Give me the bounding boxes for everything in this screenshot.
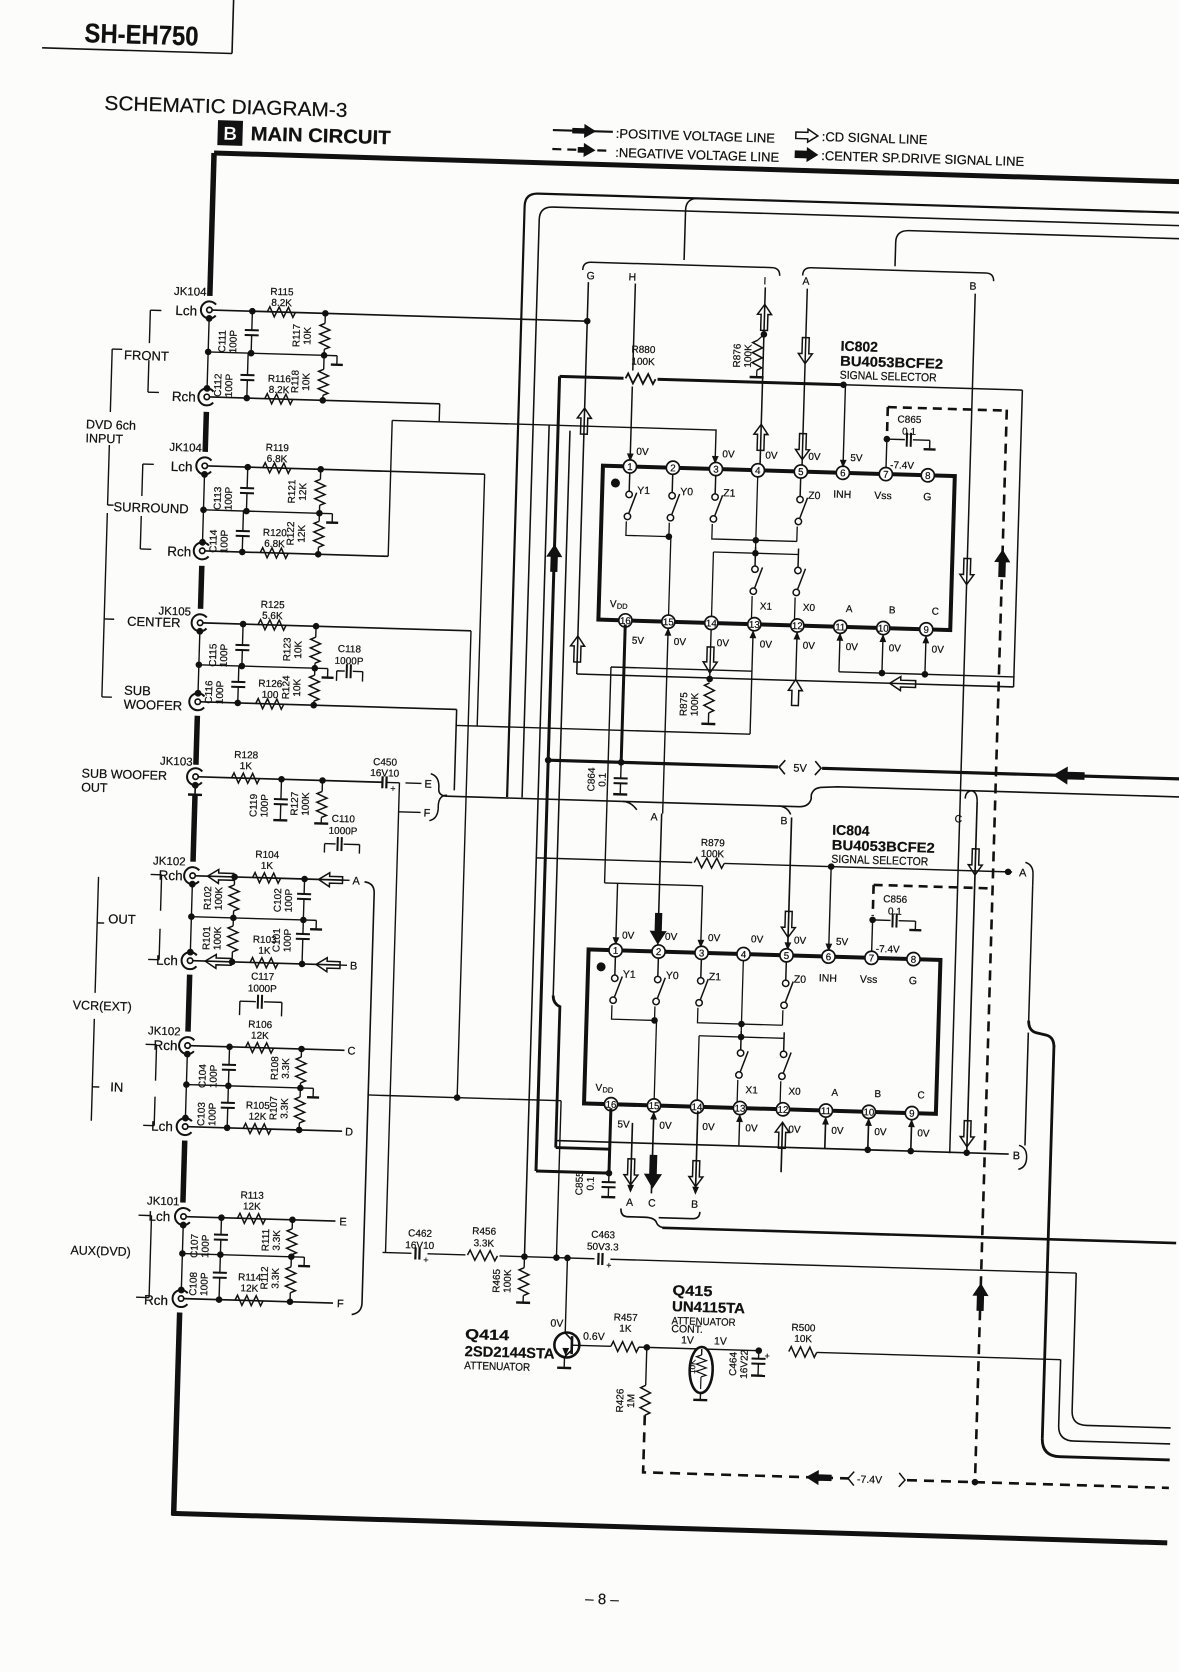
resistor R128 [231, 773, 259, 784]
svg-text:0V: 0V [674, 637, 687, 648]
svg-text:8: 8 [911, 955, 917, 966]
svg-text:5: 5 [798, 467, 804, 478]
wire C down [967, 802, 977, 1153]
resistor R104 [252, 872, 280, 883]
svg-text:10K: 10K [292, 678, 304, 696]
wire vcr out sleeve [190, 884, 192, 953]
svg-text:R104: R104 [255, 850, 280, 862]
wire subwoofer jog [454, 709, 456, 790]
wire 5V vertical feed [536, 376, 560, 1171]
svg-text:12K: 12K [298, 482, 310, 500]
legend center sp drive signal line [795, 148, 817, 162]
svg-text:Z1: Z1 [709, 971, 722, 983]
wire att line [383, 1252, 1077, 1273]
svg-text:R122: R122 [285, 521, 297, 546]
wire aux rail [182, 1254, 291, 1257]
svg-text:R112: R112 [259, 1266, 271, 1290]
svg-text:15: 15 [648, 1101, 660, 1112]
wire B line down [950, 294, 976, 1154]
wire center sleeve [198, 631, 200, 694]
svg-text:12K: 12K [243, 1201, 261, 1213]
svg-text:VCR(EXT): VCR(EXT) [73, 998, 132, 1014]
svg-text:-7.4V: -7.4V [876, 944, 901, 956]
svg-text:R116: R116 [268, 374, 292, 386]
svg-text:1V: 1V [714, 1335, 727, 1347]
wire pins 11 10 9 line [836, 633, 843, 641]
svg-text:C118: C118 [338, 644, 362, 656]
capacitor C864 [620, 762, 622, 778]
svg-text:5V: 5V [836, 937, 849, 948]
svg-text:C103: C103 [196, 1102, 208, 1127]
bundle curl A exit [1025, 862, 1034, 885]
IC804 switch wiring [612, 1005, 655, 1020]
jack JK105 sub woofer [189, 693, 205, 710]
svg-text:C101: C101 [271, 928, 283, 953]
svg-text:10: 10 [878, 624, 890, 635]
wire pin14 R875 [710, 629, 711, 679]
resistor R500 [789, 1347, 817, 1358]
svg-text:R125: R125 [261, 600, 286, 612]
svg-text:1000P: 1000P [248, 983, 278, 995]
svg-text:R106: R106 [248, 1019, 273, 1031]
svg-text:3: 3 [713, 465, 719, 476]
wire E stub [405, 782, 421, 784]
svg-text:13: 13 [734, 1103, 746, 1114]
svg-text:8.2K: 8.2K [271, 298, 292, 310]
svg-text:0V: 0V [931, 645, 944, 656]
jack JK101 Lch [175, 1208, 191, 1225]
svg-text:0.1: 0.1 [902, 427, 917, 438]
IC802 box [598, 466, 954, 630]
section marker B [217, 120, 243, 146]
capacitor C118 [335, 671, 337, 681]
wire aux lch [186, 1217, 335, 1221]
svg-text:5V: 5V [793, 762, 807, 774]
wire 5V rail [548, 760, 778, 767]
wire att corner right [1072, 1273, 1175, 1428]
svg-text:10K: 10K [301, 372, 313, 390]
svg-text:0V: 0V [808, 452, 821, 463]
ground vcr out [303, 919, 316, 921]
ground JK103 [194, 785, 196, 794]
bundle curl C [965, 791, 977, 802]
IC804 switch Z0 [785, 961, 788, 980]
svg-text:100K: 100K [212, 926, 224, 950]
bundle brace IC804 [623, 801, 637, 809]
svg-text:C116: C116 [204, 680, 216, 704]
svg-text:G: G [909, 975, 918, 987]
wire vcr out rail [191, 917, 303, 920]
capacitor C116 [237, 666, 239, 682]
svg-text:0.1: 0.1 [585, 1176, 596, 1191]
svg-text:R128: R128 [234, 750, 259, 762]
svg-text:AUX(DVD): AUX(DVD) [70, 1243, 131, 1259]
svg-text:0V: 0V [665, 932, 678, 943]
svg-text:Y0: Y0 [666, 970, 679, 982]
label OUT [151, 873, 162, 875]
wire A bundle down [1029, 886, 1033, 1021]
svg-text:1K: 1K [240, 761, 253, 772]
svg-text:A: A [831, 1088, 838, 1099]
svg-text:100: 100 [261, 690, 278, 702]
wire dashed -7.4V [643, 1415, 644, 1465]
capacitor C450 [381, 776, 384, 788]
resistor R876 [758, 334, 764, 340]
wire vcr in lch [188, 1127, 342, 1132]
arrow C drive [645, 1155, 662, 1187]
svg-text:100P: 100P [219, 643, 231, 667]
wire Vss to C865 [885, 439, 888, 468]
IC802 pin1 mark [611, 478, 620, 487]
svg-text:R426: R426 [615, 1388, 627, 1413]
svg-text:12K: 12K [248, 1111, 266, 1123]
IC804 switch Z1 [700, 959, 703, 978]
svg-text:Z0: Z0 [808, 490, 821, 502]
svg-text:X1: X1 [745, 1085, 758, 1096]
svg-text:100K: 100K [701, 849, 725, 861]
svg-text:F: F [423, 808, 430, 820]
wire G line [577, 282, 589, 674]
wire v626 [605, 667, 611, 883]
svg-text:C111: C111 [217, 330, 229, 353]
svg-text:X0: X0 [803, 603, 816, 614]
svg-text:0V: 0V [745, 1123, 758, 1134]
svg-text:R108: R108 [270, 1056, 282, 1081]
svg-text::CD SIGNAL LINE: :CD SIGNAL LINE [822, 129, 928, 147]
svg-text:Vss: Vss [874, 490, 892, 503]
IC804 switch X0 [783, 1032, 786, 1051]
wire stub A [343, 879, 350, 881]
wire to IC802 pin3 [392, 420, 708, 429]
svg-text:5V: 5V [850, 453, 863, 464]
wire pin6 feed [843, 385, 845, 467]
svg-text:Y0: Y0 [680, 486, 693, 498]
svg-text:1V: 1V [681, 1334, 694, 1346]
IC802 pins top [623, 460, 637, 474]
wire surround sleeve [202, 474, 204, 543]
wire thick L1161 [536, 1171, 609, 1173]
svg-text:DVD 6ch: DVD 6ch [86, 417, 136, 432]
capacitor C119 [280, 779, 283, 799]
svg-text:8: 8 [925, 471, 931, 482]
svg-text:Lch: Lch [175, 303, 197, 319]
wire subwoofer out [199, 777, 383, 782]
svg-text:R879: R879 [701, 838, 726, 850]
resistor R457 [572, 1345, 611, 1346]
svg-text:-7.4V: -7.4V [890, 460, 915, 472]
svg-text:4: 4 [741, 950, 747, 961]
resistor R113 [237, 1213, 265, 1224]
cd arrow B [316, 957, 340, 972]
capacitor C462 [411, 1245, 427, 1262]
jack JK104 Rch front [198, 388, 214, 405]
svg-text:R121: R121 [287, 479, 299, 504]
svg-text:Rch: Rch [144, 1292, 168, 1308]
svg-text:A: A [352, 875, 360, 887]
svg-text:8.2K: 8.2K [269, 385, 290, 397]
svg-text:C102: C102 [273, 888, 285, 913]
wire bus line 4 [895, 230, 1179, 275]
wire surround mid rail [203, 510, 319, 513]
svg-text:0V: 0V [636, 447, 649, 458]
svg-text:11: 11 [835, 622, 845, 633]
svg-text:5V: 5V [632, 636, 645, 647]
ground vcr in [300, 1087, 313, 1089]
svg-text:R456: R456 [472, 1226, 497, 1238]
IC804 pins bottom [604, 1097, 618, 1111]
svg-text:R875: R875 [679, 692, 691, 717]
ground surround [319, 512, 332, 514]
svg-text:R114: R114 [238, 1272, 262, 1284]
resistor R118 [323, 368, 325, 370]
bundle curl E [430, 774, 448, 796]
svg-text:100K: 100K [502, 1269, 514, 1293]
wire pin12 IC804 stub [781, 1123, 782, 1172]
legend CD signal line [796, 129, 818, 143]
bundle curl B exit [1018, 1145, 1027, 1169]
svg-text:R465: R465 [491, 1268, 503, 1293]
svg-text:MAIN CIRCUIT: MAIN CIRCUIT [250, 123, 391, 149]
resistor R126 [256, 698, 284, 709]
svg-text:SH-EH750: SH-EH750 [84, 18, 199, 51]
svg-text:0V: 0V [622, 930, 635, 941]
svg-text:100P: 100P [199, 1272, 211, 1296]
capacitor C865 dashed box [888, 407, 1007, 411]
IC802 pins bottom [619, 614, 633, 628]
svg-text:14: 14 [706, 618, 718, 629]
svg-text:100P: 100P [223, 486, 235, 510]
jack JK104 surround Rch [193, 542, 209, 559]
svg-text:6: 6 [840, 468, 846, 479]
svg-text:Y1: Y1 [637, 485, 650, 497]
svg-text:0V: 0V [765, 450, 778, 461]
resistor R426 [646, 1347, 647, 1385]
svg-text:INH: INH [819, 972, 837, 985]
capacitor C856 dashed box [874, 885, 993, 889]
svg-text:R876: R876 [732, 343, 744, 368]
title box SH-EH750 [42, 48, 232, 54]
svg-text:E: E [339, 1216, 347, 1228]
svg-text:C864: C864 [586, 767, 598, 792]
wire A to IC804 pin2 [658, 814, 662, 946]
wire pin15 stub [665, 628, 672, 636]
wire bus line 3 stem to GHI brace [684, 198, 699, 260]
ground center [315, 667, 328, 669]
svg-text:1000P: 1000P [334, 656, 364, 668]
wire pin13 IC804 stub [736, 1114, 743, 1122]
bundle bracket A-F [352, 882, 375, 1315]
svg-text:9: 9 [923, 625, 929, 636]
svg-text:C: C [954, 813, 962, 825]
IC802 switch X1 [754, 547, 757, 566]
svg-text:C114: C114 [208, 529, 220, 553]
svg-text:JK104: JK104 [174, 286, 208, 299]
svg-text:0V: 0V [788, 1124, 801, 1135]
IC802 switch Z1 [714, 475, 717, 494]
wire B to IC804 pin5 [788, 817, 792, 950]
wire vcr in rch [191, 1046, 345, 1051]
svg-text:A: A [802, 276, 809, 288]
svg-text:10: 10 [863, 1107, 875, 1118]
svg-text:C108: C108 [188, 1271, 200, 1296]
svg-text:6.8K: 6.8K [267, 454, 288, 466]
svg-text:100K: 100K [214, 886, 226, 910]
svg-text:JK101: JK101 [147, 1195, 180, 1208]
capacitor C110 [323, 844, 325, 853]
svg-text:0V: 0V [846, 642, 859, 653]
IC802 switch Z0 [799, 478, 802, 497]
capacitor C102 [303, 879, 305, 894]
wire A bundle thin down [1025, 1033, 1028, 1146]
wire pin16 to rail [621, 624, 625, 762]
svg-text:C: C [917, 1090, 925, 1101]
svg-text:0.1: 0.1 [597, 772, 608, 787]
wire A line to IC802 pin5 [802, 289, 807, 467]
svg-text:R111: R111 [261, 1228, 273, 1251]
svg-text:0V: 0V [717, 638, 730, 649]
wire R500 out [817, 1352, 1061, 1359]
svg-text:R105: R105 [246, 1100, 271, 1112]
resistor R107 [299, 1088, 301, 1097]
svg-text:15: 15 [663, 617, 675, 628]
svg-text:R102: R102 [203, 886, 215, 911]
svg-text:JK103: JK103 [160, 756, 193, 769]
svg-text:12K: 12K [251, 1030, 269, 1042]
bracket VCR group [95, 877, 98, 993]
cd arrow out lch [205, 954, 231, 969]
svg-text:16V22: 16V22 [739, 1349, 751, 1379]
jack JK102 out Rch [184, 867, 200, 884]
wire box right [1014, 390, 1023, 687]
svg-text:C: C [648, 1197, 656, 1209]
jack JK103 [187, 768, 203, 785]
resistor R879 line [536, 858, 692, 863]
svg-text:10K: 10K [302, 326, 314, 344]
svg-text:10K: 10K [688, 1359, 697, 1374]
resistor R102 [233, 877, 235, 885]
svg-text:0V: 0V [794, 936, 807, 947]
svg-text:C463: C463 [591, 1230, 616, 1242]
svg-text:Lch: Lch [171, 459, 193, 475]
svg-text:C464: C464 [728, 1351, 740, 1376]
svg-text:R126: R126 [258, 679, 283, 691]
wire stub B [340, 964, 347, 966]
svg-text:100P: 100P [219, 529, 231, 553]
svg-text:4: 4 [755, 466, 761, 477]
svg-text:R123: R123 [282, 637, 294, 662]
svg-text:BU4053BCFE2: BU4053BCFE2 [840, 353, 944, 372]
svg-text:100K: 100K [300, 792, 312, 816]
resistor R115 [267, 307, 295, 318]
svg-text:1: 1 [627, 462, 633, 473]
wire vcr in sleeve [185, 1054, 187, 1119]
wire surround rch [205, 551, 388, 556]
svg-text:G: G [586, 270, 595, 282]
resistor R117 [324, 313, 326, 323]
jack JK104 Lch [201, 301, 217, 318]
resistor R105 [243, 1123, 271, 1134]
svg-text:0V: 0V [708, 933, 721, 944]
svg-text:1K: 1K [261, 861, 274, 872]
svg-text:12: 12 [777, 1105, 788, 1116]
svg-text:+: + [764, 1351, 770, 1361]
svg-text:B: B [889, 605, 896, 616]
wire A arrow IC804 [630, 1123, 632, 1191]
wire sub woofer [201, 702, 457, 710]
svg-text:16V10: 16V10 [370, 768, 400, 780]
svg-text:7: 7 [883, 470, 889, 481]
svg-text:C: C [347, 1045, 355, 1057]
svg-text:-7.4V: -7.4V [857, 1474, 882, 1487]
svg-text:JK102: JK102 [148, 1025, 181, 1038]
wire tap down [556, 1101, 561, 1258]
svg-text:100K: 100K [690, 692, 702, 716]
wire I line to IC802 pin4 [760, 287, 765, 466]
svg-text:R124: R124 [281, 675, 293, 700]
wire vcr out lch [193, 961, 340, 965]
wire bus line 1 [507, 193, 1179, 817]
svg-text:9: 9 [909, 1109, 915, 1120]
svg-text:C119: C119 [248, 793, 260, 817]
svg-text:100P: 100P [259, 794, 271, 818]
wire box bottom [577, 674, 1014, 687]
svg-text:IN: IN [110, 1079, 123, 1094]
svg-text:7: 7 [869, 953, 875, 964]
svg-text:Vss: Vss [860, 974, 878, 987]
wire surround lch [208, 466, 485, 474]
wire pin1 IC804 feed [616, 883, 618, 943]
svg-text:WOOFER: WOOFER [123, 697, 182, 714]
resistor R123 [315, 626, 317, 637]
svg-text:0V: 0V [917, 1128, 930, 1139]
wire Vss IC804 [871, 920, 874, 952]
resistor R106 [245, 1042, 273, 1053]
wire vcr out rch [196, 876, 343, 880]
svg-text:100P: 100P [207, 1102, 219, 1126]
resistor R875 [704, 683, 715, 713]
capacitor C111 [251, 311, 254, 330]
wire bundle tap [368, 1095, 561, 1101]
svg-text:0V: 0V [659, 1121, 672, 1132]
svg-text:0V: 0V [831, 1126, 844, 1137]
svg-text:F: F [337, 1298, 344, 1310]
svg-text:B: B [1012, 1150, 1020, 1162]
bundle brace G-H-I [583, 262, 780, 276]
svg-text:+: + [390, 784, 396, 794]
IC804 switch Y1 [614, 956, 617, 975]
svg-text:B: B [350, 960, 358, 972]
svg-text:DD: DD [617, 602, 629, 611]
svg-text:BU4053BCFE2: BU4053BCFE2 [832, 837, 936, 856]
bundle curl F [429, 795, 447, 821]
svg-text:H: H [628, 271, 636, 283]
svg-text:DD: DD [602, 1085, 614, 1094]
wire pin16 IC804 5V [609, 1108, 611, 1173]
wire surround rch up [388, 420, 392, 556]
svg-text:50V3.3: 50V3.3 [587, 1242, 619, 1254]
svg-text:0V: 0V [760, 639, 773, 650]
border left [210, 153, 214, 296]
IC804 pin1 mark [596, 962, 605, 971]
svg-text:X1: X1 [760, 601, 773, 612]
svg-text:100P: 100P [228, 330, 240, 354]
resistor R125 [258, 620, 286, 631]
svg-text:C856: C856 [883, 894, 908, 906]
svg-text:+: + [606, 1260, 612, 1270]
svg-text:5: 5 [784, 951, 790, 962]
resistor R121 [319, 469, 321, 479]
svg-text:2: 2 [670, 463, 676, 474]
